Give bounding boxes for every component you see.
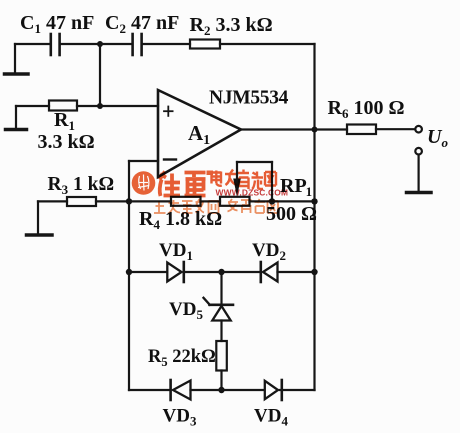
wire ground to R1 <box>16 105 49 107</box>
svg-text:R2 3.3 kΩ: R2 3.3 kΩ <box>190 14 273 38</box>
svg-text:3.3 kΩ: 3.3 kΩ <box>38 131 95 153</box>
wire node G down to VD5 <box>220 272 222 304</box>
wire R5 to node I <box>220 371 222 391</box>
ground (top-left) <box>5 44 29 74</box>
wire op-amp output <box>241 128 315 130</box>
wire node A down to node B <box>99 44 101 106</box>
svg-text:Uo: Uo <box>427 126 448 150</box>
wire C1 to node A <box>60 43 100 45</box>
diode VD1 <box>167 262 184 282</box>
wire VD5 to R5 <box>220 321 222 342</box>
wire RP1 to right rail <box>250 200 315 202</box>
zener diode VD5 <box>204 298 234 321</box>
svg-text:C1 47 nF: C1 47 nF <box>20 12 94 36</box>
capacitor C2 <box>133 34 142 55</box>
svg-text:VD5: VD5 <box>169 299 203 322</box>
resistor R3 <box>67 197 96 206</box>
wire R4 to RP1 <box>201 200 221 202</box>
ground (R1 left) <box>6 106 27 130</box>
node D (wiper tie) <box>269 198 275 204</box>
wire R1 to op-amp + input <box>77 105 158 107</box>
wire R3 to node C <box>96 200 129 202</box>
wire node C down to bridge <box>128 201 130 390</box>
svg-text:R3 1 kΩ: R3 1 kΩ <box>48 174 115 197</box>
watermark logo group <box>132 170 288 214</box>
wire node A to C2 <box>100 43 132 45</box>
watermark big chars <box>160 172 206 197</box>
watermark circle icon <box>132 171 156 195</box>
terminal Uo bottom <box>415 148 422 155</box>
node output <box>312 127 318 133</box>
RP1 wiper arrow <box>233 179 241 197</box>
diode VD4 <box>265 380 282 400</box>
svg-text:WWW.DZSC.COM: WWW.DZSC.COM <box>216 188 289 198</box>
svg-text:A1: A1 <box>188 121 210 148</box>
diode VD3 <box>171 380 191 400</box>
node E (right rail / feedback row) <box>311 198 317 204</box>
svg-text:VD2: VD2 <box>252 240 286 263</box>
svg-text:VD1: VD1 <box>159 240 193 263</box>
op-amp plus sign <box>164 107 173 116</box>
watermark bottom slogan chars <box>154 199 278 214</box>
ground (output) <box>407 191 432 195</box>
resistor R1 <box>49 101 77 111</box>
resistor R4 <box>171 197 201 206</box>
wire bridge top-left to VD1 <box>129 271 167 273</box>
wire top-left to C1 <box>15 43 50 45</box>
watermark small chars dianzi shichang wang <box>212 170 277 190</box>
wire node G to VD2 <box>222 271 261 273</box>
capacitor C1 <box>51 34 60 55</box>
ground (R3 left) <box>27 201 53 235</box>
RP1 wiper stem and loop <box>237 162 272 201</box>
node C <box>126 198 132 204</box>
wire node C to R4 <box>129 200 171 202</box>
svg-text:R5 22kΩ: R5 22kΩ <box>148 347 216 369</box>
svg-text:VD3: VD3 <box>163 406 197 429</box>
wire R6 to terminal <box>376 128 415 130</box>
wire VD1 to node G <box>184 271 222 273</box>
wire right rail vertical <box>313 44 315 390</box>
svg-text:C2 47 nF: C2 47 nF <box>105 12 179 36</box>
wire output node to R6 <box>315 128 348 130</box>
wire R2 to right rail <box>220 43 315 45</box>
node I (bridge bottom-mid) <box>218 387 224 393</box>
svg-text:NJM5534: NJM5534 <box>209 88 289 109</box>
resistor R5 <box>216 341 227 371</box>
diode VD2 <box>261 262 278 282</box>
resistor R6 <box>347 125 376 135</box>
svg-text:R1: R1 <box>54 109 75 133</box>
wire VD2 to bridge top-right <box>278 271 315 273</box>
node G (bridge top-mid) <box>218 269 224 275</box>
wire op-amp minus input <box>129 161 158 201</box>
op-amp minus sign <box>164 158 176 160</box>
node H (bridge top-right) <box>311 269 317 275</box>
wire node I to VD4 <box>222 389 264 391</box>
resistor R2 <box>190 40 220 49</box>
node B <box>97 103 103 109</box>
node A <box>97 41 103 47</box>
svg-text:R4 1.8 kΩ: R4 1.8 kΩ <box>139 208 222 232</box>
wire bridge bottom-left <box>129 389 170 391</box>
svg-text:R6 100 Ω: R6 100 Ω <box>328 97 405 121</box>
potentiometer RP1 <box>220 197 250 206</box>
wire terminal to ground <box>418 155 420 191</box>
watermark TM <box>207 171 214 176</box>
op-amp A1 <box>158 90 241 177</box>
wire ground to R3 <box>38 200 67 202</box>
wire VD4 to bridge bottom-right <box>280 389 315 391</box>
svg-text:VD4: VD4 <box>254 406 288 429</box>
wire VD3 to node I <box>191 389 222 391</box>
wire C2 to R2 <box>142 43 190 45</box>
terminal Uo top <box>415 126 422 133</box>
node F (bridge top-left) <box>126 269 132 275</box>
